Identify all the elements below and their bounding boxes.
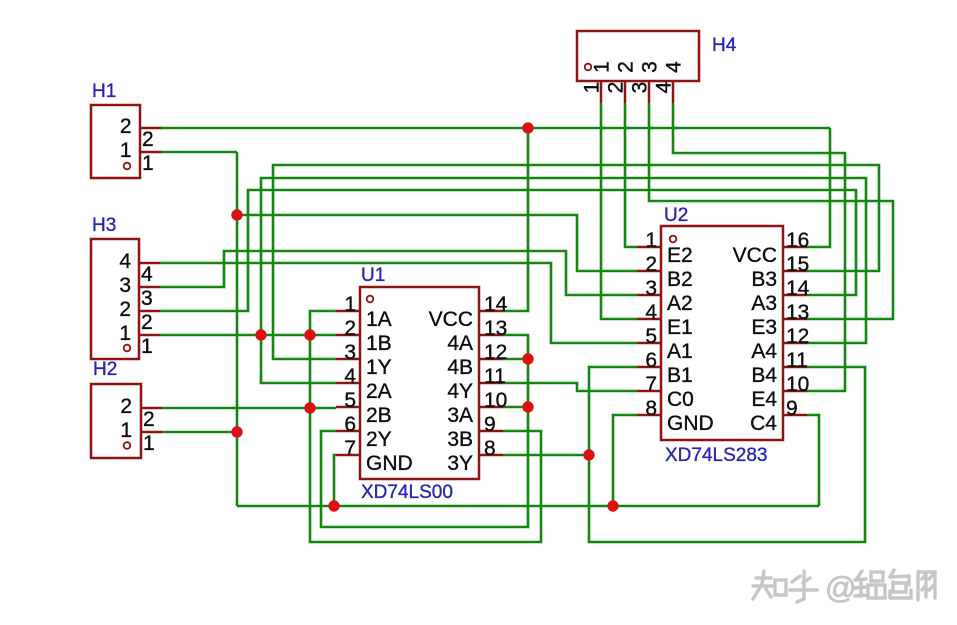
wire U1 GND pin7 drop [334, 455, 336, 506]
junction node at 528,128 [522, 122, 533, 133]
U2 pin 9 stub [783, 414, 807, 417]
U1 pin 4 stub [336, 382, 360, 385]
svg-text:3Y: 3Y [447, 452, 473, 475]
svg-text:3: 3 [119, 274, 131, 297]
svg-text:3: 3 [629, 82, 652, 94]
svg-text:H3: H3 [92, 215, 116, 236]
svg-text:E1: E1 [667, 316, 693, 339]
svg-text:1: 1 [344, 293, 356, 316]
svg-text:2: 2 [143, 408, 155, 431]
U1 pin 6 stub [336, 430, 360, 433]
wire H4-4 to U2 E4 [673, 103, 845, 391]
svg-text:1: 1 [143, 432, 155, 455]
H1 pin 1 stub [140, 151, 161, 154]
wire U1 4A/3A/2Y loop [321, 335, 528, 527]
U2 pin 4 stub [637, 318, 661, 321]
U2 pin 15 stub [783, 270, 807, 273]
svg-text:1: 1 [120, 419, 132, 442]
svg-text:XD74LS00: XD74LS00 [361, 482, 453, 503]
svg-text:3: 3 [639, 61, 662, 73]
U2 pin 7 stub [637, 390, 661, 393]
svg-text:1Y: 1Y [366, 356, 392, 379]
svg-text:2: 2 [142, 128, 154, 151]
svg-text:2: 2 [645, 253, 657, 276]
U1 pin 8 stub [479, 454, 503, 457]
U1 pin 14 stub [479, 310, 503, 313]
svg-text:10: 10 [484, 389, 507, 412]
svg-text:C0: C0 [667, 388, 694, 411]
junction node at 334,506 [328, 500, 339, 511]
U2 pin1 marker [670, 236, 677, 243]
svg-text:12: 12 [484, 341, 507, 364]
wire H1-2 to U2 VCC horizontal [161, 127, 830, 130]
svg-text:H2: H2 [93, 359, 117, 380]
H3 pin 1 stub [139, 334, 160, 337]
svg-text:2: 2 [120, 395, 132, 418]
svg-text:1: 1 [119, 322, 131, 345]
svg-text:XD74LS283: XD74LS283 [665, 445, 767, 466]
svg-text:VCC: VCC [429, 308, 473, 331]
U2 pin 2 stub [637, 270, 661, 273]
wire GND bottom horizontal [237, 505, 819, 508]
U1 pin 13 stub [479, 334, 503, 337]
U2 pin 6 stub [637, 366, 661, 369]
junction node at 237,215 [231, 209, 242, 220]
svg-text:A3: A3 [751, 292, 777, 315]
junction node at 528,407 [522, 401, 533, 412]
svg-text:2: 2 [120, 115, 132, 138]
svg-text:6: 6 [645, 349, 657, 372]
wire 1A/2B/3B net vertical [310, 311, 541, 542]
wire H2-1 to GND [162, 431, 237, 434]
U2 pin 8 stub [637, 414, 661, 417]
svg-text:4B: 4B [447, 356, 473, 379]
wire node GND-junction to U2 B2 [237, 215, 637, 271]
svg-text:H4: H4 [712, 35, 737, 56]
svg-text:2: 2 [615, 61, 638, 73]
wire H4-3 to U2 E3 [649, 103, 893, 319]
wire H2-2 to U1 2B [162, 407, 336, 410]
svg-text:2: 2 [119, 298, 131, 321]
svg-text:4Y: 4Y [447, 380, 473, 403]
U2 pin 3 stub [637, 294, 661, 297]
svg-text:1: 1 [141, 335, 153, 358]
svg-text:2: 2 [344, 317, 356, 340]
svg-text:13: 13 [484, 317, 507, 340]
U1 pin 5 stub [336, 406, 360, 409]
svg-text:8: 8 [645, 397, 657, 420]
svg-text:E4: E4 [751, 388, 777, 411]
svg-text:14: 14 [786, 277, 810, 300]
svg-text:9: 9 [484, 413, 496, 436]
svg-text:E3: E3 [751, 316, 777, 339]
U2 pin 14 stub [783, 294, 807, 297]
U1 pin 9 stub [479, 430, 503, 433]
svg-text:7: 7 [645, 373, 657, 396]
svg-text:16: 16 [786, 229, 809, 252]
U2 pin 16 stub [783, 246, 807, 249]
svg-text:B1: B1 [667, 364, 693, 387]
svg-text:B4: B4 [751, 364, 777, 387]
svg-text:B2: B2 [667, 268, 693, 291]
wire U2 GND pin8 drop [613, 415, 637, 506]
H3 pin1 marker [124, 345, 131, 352]
svg-text:1: 1 [591, 61, 614, 73]
svg-text:A4: A4 [751, 340, 777, 363]
wire junction to U2 B1 [589, 367, 637, 455]
U2 pin 13 stub [783, 318, 807, 321]
svg-text:VCC: VCC [733, 244, 777, 267]
svg-text:3B: 3B [447, 428, 473, 451]
svg-text:1B: 1B [366, 332, 392, 355]
wire GND to U2 pin9 C4 [807, 415, 819, 506]
svg-text:4: 4 [653, 81, 676, 93]
wire H3-1 to U1 1B [160, 334, 336, 337]
wire H3-4 to U2 A1 [160, 263, 637, 343]
U1 pin1 marker [367, 296, 374, 303]
H3 pin 2 stub [139, 310, 160, 313]
U2 pin 5 stub [637, 342, 661, 345]
wire VCC branch to U1 pin14 [503, 128, 528, 311]
junction node at 528,359 [522, 353, 533, 364]
wire U1 3Y horizontal [503, 454, 589, 457]
H4 pin 4 stub [672, 81, 675, 103]
wire U1 3A stub link [503, 406, 528, 409]
H2 pin 2 stub [141, 407, 162, 410]
connector H1 body [91, 105, 140, 178]
svg-text:1A: 1A [366, 308, 392, 331]
wire H3-3 to U2 A2 [160, 251, 637, 295]
U1 pin 10 stub [479, 406, 503, 409]
svg-text:4A: 4A [447, 332, 473, 355]
svg-text:2Y: 2Y [366, 428, 392, 451]
wire H4-1 to U2 E1 [601, 103, 637, 319]
svg-text:14: 14 [484, 293, 508, 316]
svg-text:13: 13 [786, 301, 809, 324]
svg-text:7: 7 [344, 437, 356, 460]
wire GND main vertical [236, 152, 239, 506]
junction node at 261,335 [255, 329, 266, 340]
junction node at 589,455 [583, 449, 594, 460]
H4 pin 2 stub [624, 81, 627, 103]
svg-text:@: @ [825, 570, 856, 605]
svg-text:5: 5 [344, 389, 356, 412]
op chip U1 body [360, 287, 479, 479]
connector H4 body [577, 31, 699, 81]
svg-text:2: 2 [141, 311, 153, 334]
connector H2 body [91, 384, 141, 458]
svg-text:GND: GND [366, 452, 413, 475]
wire U1 4Y to U2 C0 [503, 383, 637, 391]
svg-text:3: 3 [141, 287, 153, 310]
svg-text:1: 1 [120, 139, 132, 162]
U2 pin 1 stub [637, 246, 661, 249]
svg-text:1: 1 [142, 152, 154, 175]
junction node at 613,506 [607, 500, 618, 511]
U1 pin 11 stub [479, 382, 503, 385]
svg-text:2B: 2B [366, 404, 392, 427]
H4 pin 1 stub [600, 81, 603, 103]
chip U2 body [661, 226, 783, 440]
wire U1 4B stub link [503, 358, 528, 361]
svg-text:4: 4 [141, 263, 153, 286]
U1 pin 1 stub [336, 310, 360, 313]
U2 pin 10 stub [783, 390, 807, 393]
svg-text:B3: B3 [751, 268, 777, 291]
svg-text:8: 8 [484, 437, 496, 460]
svg-text:4: 4 [663, 61, 686, 73]
svg-text:1: 1 [645, 229, 657, 252]
H1 pin1 marker [124, 163, 131, 170]
svg-text:GND: GND [667, 412, 714, 435]
wire H3-2 to U2 A3 [160, 190, 856, 311]
wire VCC right vertical [807, 128, 830, 247]
wire junction to U2 B4 [589, 367, 865, 542]
junction node at 310,408 [304, 402, 315, 413]
wire U1 1Y to U2 B3 [273, 165, 879, 359]
U1 pin 12 stub [479, 358, 503, 361]
H4 pin 3 stub [648, 81, 651, 103]
svg-text:11: 11 [786, 349, 808, 372]
U2 pin 12 stub [783, 342, 807, 345]
H3 pin 3 stub [139, 286, 160, 289]
svg-text:11: 11 [484, 365, 506, 388]
svg-text:9: 9 [786, 397, 798, 420]
svg-text:4: 4 [119, 250, 131, 273]
svg-text:A2: A2 [667, 292, 693, 315]
U1 pin 2 stub [336, 334, 360, 337]
svg-text:12: 12 [786, 325, 809, 348]
wire 1B-net to U1 2A and U2 A4 [261, 178, 866, 383]
svg-text:E2: E2 [667, 244, 693, 267]
svg-text:5: 5 [645, 325, 657, 348]
svg-text:2: 2 [605, 82, 628, 94]
watermark zhihu text [753, 570, 935, 602]
wire H4-2 to U2 E2 [625, 103, 637, 247]
H3 pin 4 stub [139, 262, 160, 265]
H1 pin 2 stub [140, 127, 161, 130]
svg-text:15: 15 [786, 253, 809, 276]
junction node at 237,432 [231, 426, 242, 437]
svg-text:C4: C4 [750, 412, 777, 435]
svg-text:6: 6 [344, 413, 356, 436]
svg-text:U1: U1 [361, 265, 385, 286]
svg-text:3: 3 [645, 277, 657, 300]
H4 pin1 marker [585, 64, 592, 71]
svg-text:4: 4 [645, 301, 657, 324]
H2 pin1 marker [124, 442, 131, 449]
wire H1-1 horizontal [161, 151, 237, 154]
junction node at 310,335 [304, 329, 315, 340]
svg-text:1: 1 [581, 82, 604, 94]
U2 pin 11 stub [783, 366, 807, 369]
svg-text:U2: U2 [664, 205, 688, 226]
svg-text:4: 4 [344, 365, 356, 388]
svg-text:3: 3 [344, 341, 356, 364]
svg-text:3A: 3A [447, 404, 473, 427]
U1 pin 7 stub [336, 454, 360, 457]
svg-text:A1: A1 [667, 340, 693, 363]
svg-text:10: 10 [786, 373, 809, 396]
svg-text:2A: 2A [366, 380, 392, 403]
connector H3 body [91, 239, 139, 359]
svg-text:H1: H1 [92, 81, 116, 102]
H2 pin 1 stub [141, 431, 162, 434]
U1 pin 3 stub [336, 358, 360, 361]
